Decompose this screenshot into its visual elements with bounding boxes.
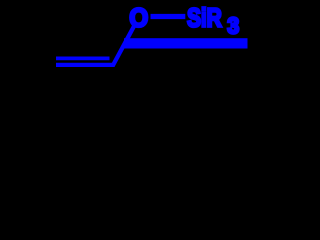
- bold bond (thick horizontal band): [124, 38, 248, 48]
- svg-text:3: 3: [227, 13, 239, 39]
- double bond C=C main line + wire to O (diagonal bond): [56, 26, 134, 65]
- double bond C=C inner line: [56, 57, 110, 61]
- svg-text:SiR: SiR: [187, 3, 222, 33]
- svg-text:O: O: [129, 3, 148, 33]
- O-Si bond: [151, 14, 186, 19]
